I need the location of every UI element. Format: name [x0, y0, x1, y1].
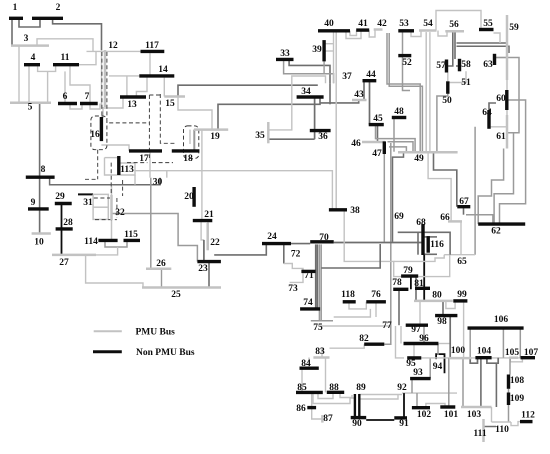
svg-text:61: 61	[496, 132, 506, 142]
svg-text:35: 35	[255, 131, 265, 141]
svg-text:PMU Bus: PMU Bus	[136, 328, 176, 338]
svg-text:33: 33	[280, 49, 290, 59]
svg-text:113: 113	[120, 165, 134, 175]
svg-text:11: 11	[61, 53, 70, 63]
svg-text:57: 57	[436, 61, 446, 71]
svg-text:60: 60	[496, 94, 506, 104]
svg-text:10: 10	[34, 238, 44, 248]
svg-text:74: 74	[303, 298, 313, 308]
svg-text:45: 45	[373, 114, 383, 124]
svg-text:116: 116	[430, 240, 444, 250]
svg-text:28: 28	[63, 218, 73, 228]
svg-text:64: 64	[482, 108, 492, 118]
svg-text:8: 8	[41, 165, 46, 175]
svg-text:102: 102	[417, 410, 432, 420]
svg-text:71: 71	[304, 271, 314, 281]
svg-text:13: 13	[127, 100, 137, 110]
svg-text:5: 5	[28, 103, 33, 113]
svg-text:29: 29	[55, 192, 65, 202]
svg-text:50: 50	[442, 96, 452, 106]
svg-text:2: 2	[56, 3, 61, 13]
svg-text:77: 77	[382, 321, 392, 331]
svg-text:89: 89	[356, 383, 366, 393]
svg-text:70: 70	[319, 233, 329, 243]
svg-text:47: 47	[372, 149, 382, 159]
svg-text:88: 88	[329, 383, 339, 393]
svg-text:21: 21	[204, 210, 214, 220]
svg-text:85: 85	[297, 383, 307, 393]
svg-text:82: 82	[359, 334, 369, 344]
svg-text:93: 93	[413, 368, 423, 378]
svg-text:98: 98	[437, 317, 447, 327]
svg-text:1: 1	[13, 3, 18, 13]
svg-text:76: 76	[371, 290, 381, 300]
svg-text:44: 44	[366, 70, 376, 80]
svg-text:26: 26	[156, 259, 166, 269]
svg-text:68: 68	[416, 218, 426, 228]
svg-text:9: 9	[31, 198, 36, 208]
svg-text:39: 39	[312, 45, 322, 55]
svg-text:112: 112	[521, 411, 535, 421]
svg-text:69: 69	[394, 212, 404, 222]
svg-text:84: 84	[301, 359, 311, 369]
svg-text:107: 107	[524, 348, 539, 358]
svg-text:46: 46	[351, 139, 361, 149]
svg-text:52: 52	[402, 58, 412, 68]
svg-text:110: 110	[495, 425, 509, 435]
svg-text:105: 105	[505, 348, 520, 358]
svg-text:25: 25	[171, 290, 181, 300]
svg-text:12: 12	[108, 41, 118, 51]
svg-text:56: 56	[449, 20, 459, 30]
svg-text:31: 31	[83, 198, 93, 208]
svg-text:67: 67	[459, 197, 469, 207]
svg-text:99: 99	[457, 290, 467, 300]
svg-text:49: 49	[414, 154, 424, 164]
svg-text:32: 32	[115, 208, 125, 218]
svg-text:22: 22	[210, 238, 220, 248]
svg-text:118: 118	[341, 290, 355, 300]
svg-text:65: 65	[457, 257, 467, 267]
svg-text:62: 62	[491, 227, 501, 237]
svg-text:87: 87	[323, 414, 333, 424]
svg-text:51: 51	[461, 78, 471, 88]
svg-text:58: 58	[461, 60, 471, 70]
svg-text:17: 17	[139, 154, 149, 164]
svg-text:27: 27	[59, 258, 69, 268]
svg-text:86: 86	[296, 404, 306, 414]
svg-text:94: 94	[433, 362, 443, 372]
svg-text:114: 114	[84, 237, 98, 247]
svg-text:90: 90	[352, 419, 362, 429]
svg-text:100: 100	[451, 346, 466, 356]
svg-text:117: 117	[145, 41, 159, 51]
svg-text:80: 80	[432, 291, 442, 301]
svg-text:23: 23	[198, 264, 208, 274]
svg-text:72: 72	[291, 250, 301, 260]
svg-text:38: 38	[350, 206, 360, 216]
svg-text:40: 40	[324, 19, 334, 29]
svg-text:108: 108	[510, 376, 525, 386]
svg-text:48: 48	[394, 107, 404, 117]
svg-text:41: 41	[358, 19, 368, 29]
svg-text:54: 54	[423, 19, 433, 29]
svg-text:3: 3	[24, 34, 29, 44]
svg-text:34: 34	[301, 87, 311, 97]
svg-text:Non PMU Bus: Non PMU Bus	[136, 348, 195, 358]
svg-text:19: 19	[210, 132, 220, 142]
svg-text:106: 106	[494, 315, 509, 325]
svg-text:16: 16	[90, 130, 100, 140]
svg-text:83: 83	[315, 347, 325, 357]
svg-text:96: 96	[419, 334, 429, 344]
svg-text:78: 78	[392, 278, 402, 288]
svg-text:73: 73	[288, 284, 298, 294]
svg-text:20: 20	[184, 192, 194, 202]
svg-text:104: 104	[477, 347, 492, 357]
svg-text:53: 53	[399, 19, 409, 29]
svg-text:18: 18	[183, 154, 193, 164]
svg-text:91: 91	[399, 419, 409, 429]
svg-text:7: 7	[85, 92, 90, 102]
svg-text:92: 92	[397, 383, 407, 393]
svg-text:42: 42	[377, 19, 387, 29]
svg-text:63: 63	[483, 60, 493, 70]
svg-text:111: 111	[473, 429, 486, 439]
svg-text:24: 24	[267, 232, 277, 242]
svg-text:6: 6	[63, 92, 68, 102]
svg-text:103: 103	[467, 410, 482, 420]
svg-text:30: 30	[153, 178, 163, 188]
svg-text:81: 81	[414, 279, 424, 289]
svg-text:115: 115	[124, 230, 138, 240]
svg-text:75: 75	[313, 323, 323, 333]
svg-text:14: 14	[158, 65, 168, 75]
svg-text:43: 43	[354, 90, 364, 100]
svg-text:59: 59	[509, 23, 519, 33]
svg-text:36: 36	[318, 132, 328, 142]
svg-text:4: 4	[31, 53, 36, 63]
svg-text:55: 55	[483, 19, 493, 29]
svg-text:15: 15	[165, 99, 175, 109]
svg-text:101: 101	[444, 410, 459, 420]
svg-text:109: 109	[510, 394, 525, 404]
svg-text:66: 66	[440, 213, 450, 223]
svg-text:79: 79	[403, 266, 413, 276]
svg-text:37: 37	[342, 72, 352, 82]
